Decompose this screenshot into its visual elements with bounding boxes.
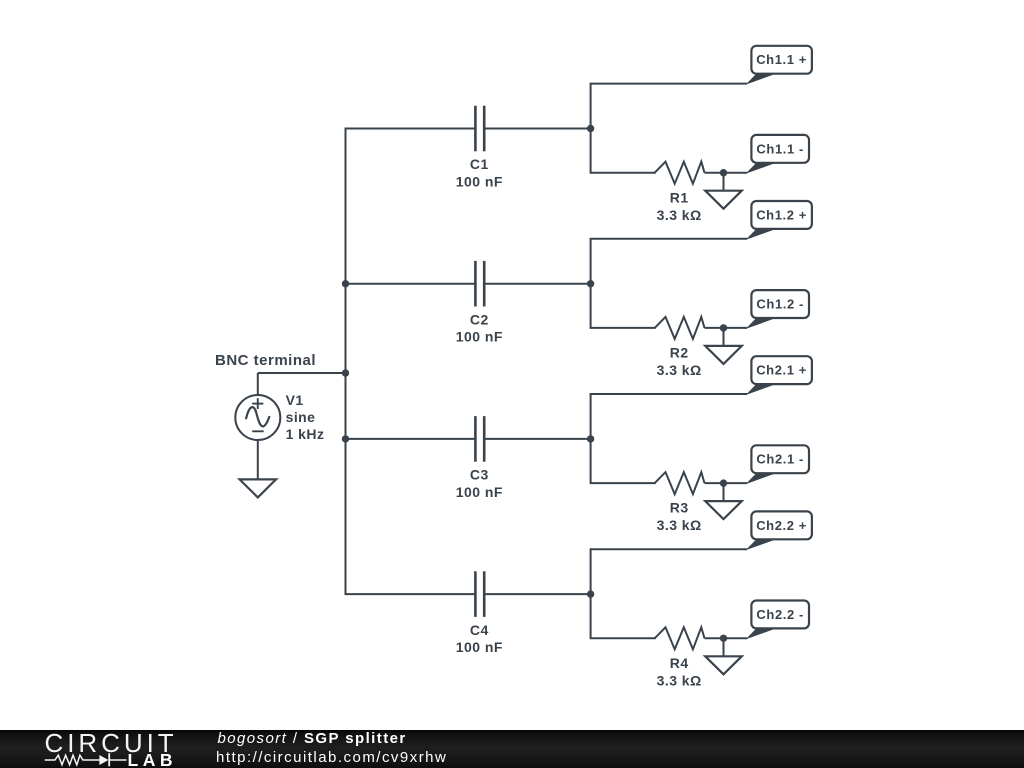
flag Ch2.2 - bbox=[746, 601, 810, 640]
wire: R2 node to ground bbox=[723, 328, 725, 346]
label R2 3.3 kOhm bbox=[657, 345, 702, 379]
ground (after R3) bbox=[705, 501, 742, 519]
capacitor C3 bbox=[475, 416, 484, 462]
junction: BNC wire on bus bbox=[342, 369, 349, 376]
junction: C3 branch on bus bbox=[342, 435, 349, 442]
svg-text:C1: C1 bbox=[470, 156, 489, 172]
svg-text:100 nF: 100 nF bbox=[456, 173, 503, 189]
wire: resistor R2 to flag Ch1.2 - bbox=[705, 327, 748, 329]
junction: C2 branch on bus bbox=[342, 280, 349, 287]
resistor R4 bbox=[655, 627, 705, 649]
junction: R1 output node bbox=[720, 169, 727, 176]
wire: right bus to resistor R3 bbox=[590, 482, 656, 484]
wire: BNC terminal to bus bbox=[258, 373, 346, 396]
svg-text:3.3 kΩ: 3.3 kΩ bbox=[657, 207, 702, 223]
svg-text:Ch2.1 -: Ch2.1 - bbox=[756, 452, 804, 467]
wire: to flag Ch1.1 + bbox=[590, 83, 747, 85]
wire: right bus to resistor R1 bbox=[590, 172, 656, 174]
wire: R1 node to ground bbox=[723, 173, 725, 191]
credit line: bogosort / SGP splitter bbox=[218, 730, 407, 747]
junction: C3 on right bus bbox=[587, 435, 594, 442]
svg-text:3.3 kΩ: 3.3 kΩ bbox=[657, 517, 702, 533]
wire: R4 node to ground bbox=[723, 638, 725, 656]
wire: bus to capacitor C4 bbox=[345, 593, 476, 595]
svg-text:100 nF: 100 nF bbox=[456, 484, 503, 500]
svg-text:Ch1.1 -: Ch1.1 - bbox=[756, 141, 804, 156]
wire: capacitor C3 to right bus bbox=[484, 438, 590, 440]
wire: bus to capacitor C3 bbox=[346, 438, 476, 440]
svg-text:Ch2.2 -: Ch2.2 - bbox=[756, 607, 804, 622]
wire: right bus segment C2 bbox=[590, 239, 592, 328]
wire: right bus to resistor R2 bbox=[590, 327, 656, 329]
wire: bus to capacitor C2 bbox=[346, 283, 476, 285]
label R3 3.3 kOhm bbox=[657, 500, 702, 534]
svg-text:3.3 kΩ: 3.3 kΩ bbox=[657, 362, 702, 378]
wire: to flag Ch2.2 + bbox=[590, 548, 747, 550]
credit line: url bbox=[216, 749, 447, 766]
resistor R1 bbox=[655, 162, 705, 184]
flag Ch2.2 + bbox=[746, 511, 812, 550]
svg-text:100 nF: 100 nF bbox=[456, 639, 503, 655]
wire: to flag Ch1.2 + bbox=[590, 238, 747, 240]
capacitor C1 bbox=[475, 106, 484, 152]
junction: R4 output node bbox=[720, 635, 727, 642]
ground (after R4) bbox=[705, 656, 742, 674]
svg-text:BNC terminal: BNC terminal bbox=[215, 352, 316, 369]
ground (below V1) bbox=[240, 479, 276, 497]
flag Ch2.1 + bbox=[746, 356, 812, 395]
svg-text:R1: R1 bbox=[670, 189, 689, 205]
flag Ch1.2 - bbox=[746, 290, 810, 329]
svg-text:C4: C4 bbox=[470, 622, 489, 638]
capacitor C4 bbox=[475, 571, 484, 617]
label C3 100 nF bbox=[456, 467, 503, 500]
ground (after R1) bbox=[705, 191, 742, 209]
flag Ch1.1 - bbox=[746, 135, 810, 174]
flag Ch2.1 - bbox=[746, 445, 810, 484]
wire: right bus segment C4 bbox=[590, 549, 592, 638]
wire: right bus to resistor R4 bbox=[590, 637, 656, 639]
CircuitLab logo LAB bbox=[128, 750, 177, 768]
svg-text:Ch1.2 +: Ch1.2 + bbox=[756, 207, 807, 222]
svg-text:V1: V1 bbox=[286, 392, 304, 408]
wire: resistor R4 to flag Ch2.2 - bbox=[705, 637, 748, 639]
svg-text:R2: R2 bbox=[670, 345, 689, 361]
junction: C4 on right bus bbox=[587, 590, 594, 597]
wire: V1 to ground bbox=[257, 440, 259, 480]
label C2 100 nF bbox=[456, 311, 503, 344]
svg-text:1 kHz: 1 kHz bbox=[286, 426, 325, 442]
wire: resistor R3 to flag Ch2.1 - bbox=[705, 482, 748, 484]
svg-text:Ch2.1 +: Ch2.1 + bbox=[756, 363, 807, 378]
wire: capacitor C2 to right bus bbox=[484, 283, 590, 285]
junction: C1 on right bus bbox=[587, 125, 594, 132]
svg-text:3.3 kΩ: 3.3 kΩ bbox=[657, 672, 702, 688]
flag Ch1.1 + bbox=[746, 46, 812, 85]
svg-text:Ch1.1 +: Ch1.1 + bbox=[756, 52, 807, 67]
svg-text:C2: C2 bbox=[470, 311, 489, 327]
svg-text:C3: C3 bbox=[470, 467, 489, 483]
junction: C2 on right bus bbox=[587, 280, 594, 287]
resistor R3 bbox=[655, 472, 705, 494]
capacitor C2 bbox=[475, 261, 484, 307]
svg-text:R3: R3 bbox=[670, 500, 689, 516]
label C1 100 nF bbox=[456, 156, 503, 189]
node BNC terminal label bbox=[215, 352, 316, 369]
wire: right bus segment C3 bbox=[590, 394, 592, 483]
voltage source V1 bbox=[235, 395, 280, 440]
junction: R3 output node bbox=[720, 479, 727, 486]
wire: capacitor C4 to right bus bbox=[484, 593, 590, 595]
label R4 3.3 kOhm bbox=[657, 655, 702, 689]
wire: right bus segment C1 bbox=[590, 84, 592, 173]
label V1 name and value (sine 1 kHz) bbox=[286, 392, 325, 442]
label C4 100 nF bbox=[456, 622, 503, 655]
svg-text:sine: sine bbox=[286, 409, 316, 425]
CircuitLab logo word bbox=[45, 728, 178, 759]
flag Ch1.2 + bbox=[746, 201, 812, 240]
svg-text:Ch2.2 +: Ch2.2 + bbox=[756, 518, 807, 533]
footer bar bbox=[0, 730, 1024, 768]
wire: to flag Ch2.1 + bbox=[590, 393, 747, 395]
svg-text:R4: R4 bbox=[670, 655, 689, 671]
wire: bus to capacitor C1 bbox=[345, 128, 476, 130]
label R1 3.3 kOhm bbox=[657, 189, 702, 223]
ground (after R2) bbox=[705, 346, 742, 364]
wire: resistor R1 to flag Ch1.1 - bbox=[705, 172, 748, 174]
wire: main input bus bbox=[345, 129, 347, 595]
resistor R2 bbox=[655, 317, 705, 339]
wire: R3 node to ground bbox=[723, 483, 725, 501]
svg-text:100 nF: 100 nF bbox=[456, 329, 503, 345]
wire: capacitor C1 to right bus bbox=[484, 128, 590, 130]
junction: R2 output node bbox=[720, 324, 727, 331]
svg-text:Ch1.2 -: Ch1.2 - bbox=[756, 297, 804, 312]
CircuitLab logo symbol (resistor + diode) bbox=[44, 752, 129, 768]
